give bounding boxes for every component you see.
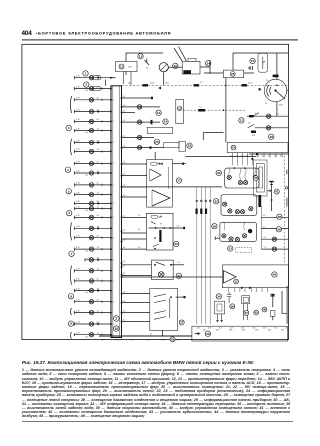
svg-text:24: 24 — [206, 61, 210, 65]
svg-text:0,5: 0,5 — [97, 98, 100, 100]
svg-text:0,5: 0,5 — [123, 135, 125, 137]
svg-text:4,8: 4,8 — [256, 156, 259, 158]
svg-text:41: 41 — [275, 190, 279, 194]
svg-text:0,5: 0,5 — [138, 229, 140, 231]
svg-text:40: 40 — [254, 176, 258, 180]
svg-text:30R: 30R — [279, 105, 283, 107]
svg-text:30: 30 — [112, 217, 114, 219]
svg-text:0,75: 0,75 — [76, 119, 80, 121]
svg-text:0,75: 0,75 — [76, 201, 80, 203]
svg-text:14: 14 — [164, 120, 168, 124]
svg-text:0,5: 0,5 — [264, 237, 267, 239]
svg-text:0,75: 0,75 — [76, 86, 80, 88]
svg-text:0,5: 0,5 — [97, 215, 100, 217]
svg-text:30: 30 — [112, 185, 114, 187]
svg-text:8: 8 — [70, 294, 72, 298]
svg-text:0,5: 0,5 — [138, 247, 140, 249]
svg-text:1,5: 1,5 — [264, 247, 267, 249]
svg-text:22: 22 — [174, 242, 178, 246]
svg-text:1,5: 1,5 — [97, 149, 100, 151]
svg-text:14,8: 14,8 — [165, 82, 169, 84]
svg-text:30: 30 — [112, 203, 114, 205]
svg-text:0,5: 0,5 — [123, 247, 125, 249]
svg-text:39: 39 — [277, 227, 281, 231]
svg-text:0,75: 0,75 — [76, 236, 80, 238]
svg-text:4: 4 — [67, 168, 69, 172]
svg-text:R-2,5: R-2,5 — [150, 83, 155, 85]
svg-text:0,5: 0,5 — [123, 300, 125, 302]
svg-text:0,75: 0,75 — [176, 340, 179, 342]
svg-text:30: 30 — [112, 259, 114, 261]
svg-text:9: 9 — [70, 322, 72, 326]
svg-text:4,8: 4,8 — [274, 156, 277, 158]
svg-text:1,5: 1,5 — [97, 269, 100, 271]
svg-text:4,8: 4,8 — [262, 156, 265, 158]
svg-text:0,75: 0,75 — [76, 322, 80, 324]
svg-text:0,75: 0,75 — [131, 340, 134, 342]
svg-text:30: 30 — [112, 281, 114, 283]
svg-text:45: 45 — [255, 311, 259, 315]
svg-text:4,8: 4,8 — [280, 156, 283, 158]
svg-text:0,5: 0,5 — [123, 120, 125, 122]
svg-text:4,8: 4,8 — [230, 156, 233, 158]
svg-text:1,5: 1,5 — [97, 171, 100, 173]
svg-text:0,75: 0,75 — [76, 300, 80, 302]
svg-text:0,5: 0,5 — [123, 195, 125, 197]
svg-text:2: 2 — [115, 317, 117, 321]
svg-text:0,5: 0,5 — [123, 215, 125, 217]
svg-text:4,8: 4,8 — [251, 156, 254, 158]
svg-text:0,75: 0,75 — [76, 109, 80, 111]
svg-text:30: 30 — [112, 77, 114, 79]
svg-text:0,5: 0,5 — [97, 236, 100, 238]
svg-text:0,5: 0,5 — [123, 261, 125, 263]
svg-text:37: 37 — [245, 311, 249, 315]
svg-text:0,75: 0,75 — [101, 340, 104, 342]
svg-text:1,5: 1,5 — [97, 86, 100, 88]
svg-text:1,5: 1,5 — [97, 192, 100, 194]
svg-text:36: 36 — [217, 171, 221, 175]
svg-text:0,75: 0,75 — [76, 171, 80, 173]
svg-text:0,5: 0,5 — [123, 319, 125, 321]
svg-text:30: 30 — [112, 301, 114, 303]
svg-text:1,5: 1,5 — [97, 288, 100, 290]
svg-text:1,5: 1,5 — [97, 128, 100, 130]
svg-text:4,8: 4,8 — [235, 156, 238, 158]
svg-text:2: 2 — [85, 83, 87, 87]
svg-text:9/16: 9/16 — [268, 330, 271, 332]
svg-text:2,5: 2,5 — [200, 82, 203, 84]
svg-text:0,5: 0,5 — [123, 146, 125, 148]
svg-text:0,75: 0,75 — [76, 226, 80, 228]
svg-text:0,5: 0,5 — [123, 110, 125, 112]
svg-text:9/16: 9/16 — [281, 330, 284, 332]
svg-text:0,75: 0,75 — [76, 215, 80, 217]
svg-text:0,75: 0,75 — [197, 328, 200, 330]
svg-text:13: 13 — [178, 106, 181, 110]
svg-text:29: 29 — [171, 337, 175, 341]
svg-text:0,75: 0,75 — [274, 328, 277, 330]
svg-text:1,5: 1,5 — [97, 109, 100, 111]
svg-text:0,75: 0,75 — [241, 328, 244, 330]
svg-text:0,5: 0,5 — [123, 239, 125, 241]
svg-text:0,75: 0,75 — [76, 149, 80, 151]
svg-text:6: 6 — [68, 211, 70, 215]
svg-text:11: 11 — [120, 65, 123, 69]
svg-text:46: 46 — [263, 308, 267, 312]
svg-text:30: 30 — [112, 237, 114, 239]
svg-text:16: 16 — [251, 59, 255, 63]
svg-text:9/16: 9/16 — [242, 330, 245, 332]
svg-text:30: 30 — [112, 121, 114, 123]
svg-text:0,75: 0,75 — [76, 128, 80, 130]
svg-text:0,75: 0,75 — [76, 206, 80, 208]
svg-text:4,8: 4,8 — [246, 156, 249, 158]
svg-text:5: 5 — [68, 189, 70, 193]
svg-text:4,8: 4,8 — [268, 156, 271, 158]
svg-text:33: 33 — [214, 199, 218, 203]
svg-text:•БОРТОВОЕ ЭЛЕКТРООБОРУДОВАНИЕ: •БОРТОВОЕ ЭЛЕКТРООБОРУДОВАНИЕ АВТОМОБИЛЯ — [36, 30, 171, 35]
svg-text:30: 30 — [213, 224, 217, 228]
svg-text:0,75: 0,75 — [219, 328, 222, 330]
svg-text:10: 10 — [115, 327, 119, 331]
svg-text:0,5: 0,5 — [263, 215, 266, 217]
svg-text:0,75: 0,75 — [285, 328, 288, 330]
svg-text:3: 3 — [68, 126, 70, 130]
svg-text:30: 30 — [112, 142, 114, 144]
svg-text:1,5: 1,5 — [138, 215, 140, 217]
svg-text:R-2,5: R-2,5 — [248, 83, 253, 85]
svg-text:0,5: 0,5 — [97, 279, 100, 281]
svg-text:0,75: 0,75 — [87, 258, 91, 260]
svg-text:0,5: 0,5 — [97, 183, 100, 185]
svg-text:5,0: 5,0 — [177, 226, 180, 228]
svg-text:0,5: 0,5 — [97, 140, 100, 142]
svg-text:30: 30 — [112, 324, 114, 326]
svg-text:23: 23 — [155, 140, 159, 144]
svg-text:0,75: 0,75 — [146, 340, 149, 342]
svg-text:7,5: 7,5 — [199, 107, 202, 109]
svg-text:0,75: 0,75 — [263, 328, 266, 330]
svg-text:0,5: 0,5 — [97, 76, 100, 78]
svg-text:0,75: 0,75 — [76, 269, 80, 271]
svg-text:0,75: 0,75 — [208, 328, 211, 330]
svg-text:30: 30 — [112, 99, 114, 101]
svg-text:0,5: 0,5 — [263, 226, 266, 228]
svg-text:0,5: 0,5 — [97, 300, 100, 302]
svg-text:0,75: 0,75 — [76, 183, 80, 185]
svg-text:0,75: 0,75 — [76, 279, 80, 281]
svg-text:0,75: 0,75 — [76, 247, 80, 249]
svg-text:1,5: 1,5 — [97, 247, 100, 249]
svg-text:9/16: 9/16 — [216, 330, 219, 332]
svg-text:34: 34 — [217, 295, 221, 299]
svg-text:0,5: 0,5 — [123, 105, 125, 107]
svg-text:0,75: 0,75 — [76, 310, 80, 312]
svg-text:0,5: 0,5 — [97, 258, 100, 260]
svg-text:28: 28 — [206, 332, 210, 336]
svg-text:F28: F28 — [252, 135, 255, 137]
svg-text:0,5: 0,5 — [123, 173, 125, 175]
svg-text:0,5: 0,5 — [123, 162, 125, 164]
svg-text:4,8: 4,8 — [241, 156, 244, 158]
svg-text:30: 30 — [112, 163, 114, 165]
svg-text:0,75: 0,75 — [76, 333, 80, 335]
svg-text:9/16: 9/16 — [255, 330, 258, 332]
svg-text:12: 12 — [235, 280, 239, 284]
svg-text:11: 11 — [240, 119, 244, 123]
svg-text:9/16: 9/16 — [203, 330, 206, 332]
svg-text:0,5: 0,5 — [123, 292, 125, 294]
svg-text:25: 25 — [231, 72, 235, 76]
svg-text:1,5: 1,5 — [97, 333, 100, 335]
svg-text:1: 1 — [85, 72, 87, 76]
svg-text:27: 27 — [180, 320, 184, 324]
svg-text:85: 85 — [160, 224, 162, 226]
svg-text:0,75: 0,75 — [76, 161, 80, 163]
svg-text:0,75: 0,75 — [76, 288, 80, 290]
svg-text:9/16: 9/16 — [229, 330, 232, 332]
svg-text:0,75: 0,75 — [252, 328, 255, 330]
svg-text:0,5: 0,5 — [123, 229, 125, 231]
svg-text:1,5: 1,5 — [97, 226, 100, 228]
svg-text:86: 86 — [151, 222, 153, 224]
svg-text:0,75: 0,75 — [116, 340, 119, 342]
svg-text:36: 36 — [231, 304, 235, 308]
svg-text:10: 10 — [157, 111, 161, 115]
svg-text:0,75: 0,75 — [76, 98, 80, 100]
svg-text:0,5: 0,5 — [178, 262, 181, 264]
svg-text:3: 3 — [164, 339, 165, 341]
svg-text:45: 45 — [273, 273, 277, 277]
svg-text:0,75: 0,75 — [76, 76, 80, 78]
svg-text:12: 12 — [139, 54, 143, 58]
svg-text:404: 404 — [22, 30, 33, 37]
svg-text:0,5: 0,5 — [123, 311, 125, 313]
svg-text:30: 30 — [150, 334, 152, 336]
svg-text:1,5: 1,5 — [97, 206, 100, 208]
svg-text:0,5: 0,5 — [97, 161, 100, 163]
svg-text:0,75: 0,75 — [230, 328, 233, 330]
svg-text:16,0: 16,0 — [128, 82, 132, 84]
svg-text:18: 18 — [188, 144, 192, 148]
svg-text:0,5: 0,5 — [97, 119, 100, 121]
svg-text:38: 38 — [278, 215, 282, 219]
svg-text:0,5: 0,5 — [97, 201, 100, 203]
svg-text:1,5: 1,5 — [97, 310, 100, 312]
svg-text:0,75: 0,75 — [76, 192, 80, 194]
svg-text:31: 31 — [229, 247, 233, 251]
svg-text:17: 17 — [177, 179, 181, 183]
svg-text:7: 7 — [71, 252, 73, 256]
svg-text:18: 18 — [269, 135, 273, 139]
svg-text:0,5: 0,5 — [123, 96, 125, 98]
svg-text:15: 15 — [232, 146, 236, 150]
svg-text:0,75: 0,75 — [76, 140, 80, 142]
svg-text:0,5: 0,5 — [123, 185, 125, 187]
svg-text:0,5: 0,5 — [97, 322, 100, 324]
